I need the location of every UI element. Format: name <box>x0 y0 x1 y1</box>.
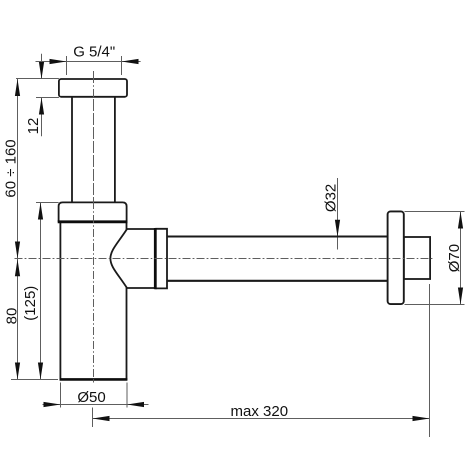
svg-text:Ø32: Ø32 <box>323 184 340 212</box>
svg-text:(125): (125) <box>22 286 39 321</box>
svg-text:60 ÷ 160: 60 ÷ 160 <box>3 139 20 197</box>
svg-text:max 320: max 320 <box>231 403 289 420</box>
svg-text:12: 12 <box>25 118 42 135</box>
svg-text:G 5/4": G 5/4" <box>73 44 115 61</box>
svg-text:Ø70: Ø70 <box>446 244 463 272</box>
svg-text:Ø50: Ø50 <box>77 389 105 406</box>
svg-text:80: 80 <box>3 308 20 325</box>
